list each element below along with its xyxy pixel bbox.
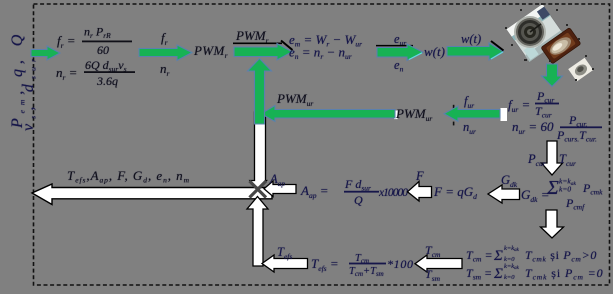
green arrow fr nr to PWMr bbox=[139, 45, 192, 61]
svg-text:*100: *100 bbox=[387, 257, 413, 271]
svg-text:k=0: k=0 bbox=[504, 256, 515, 263]
svg-text:Q: Q bbox=[354, 193, 363, 207]
photo edge speckles bbox=[505, 3, 594, 81]
svg-text:nr =: nr = bbox=[56, 65, 77, 82]
svg-text:nur = 60: nur = 60 bbox=[512, 119, 554, 136]
overline wire bbox=[233, 42, 282, 44]
formula fr = nr PrR / 60 bbox=[57, 25, 132, 58]
green arrow input bbox=[31, 46, 60, 60]
cyan tick bbox=[409, 53, 422, 60]
white arrow Gdk leftward bbox=[488, 185, 520, 203]
svg-text:Σ: Σ bbox=[546, 177, 559, 199]
svg-text:fr =: fr = bbox=[57, 33, 76, 50]
green arrow wt to photo bbox=[447, 43, 503, 60]
svg-text:60: 60 bbox=[97, 43, 109, 57]
white notch at PWMur arrow tail bbox=[394, 111, 398, 120]
white arrow Tefs into riser bbox=[262, 255, 308, 272]
junction X mixer bbox=[250, 181, 267, 198]
svg-text:k=0: k=0 bbox=[504, 274, 515, 281]
svg-text:k=0: k=0 bbox=[559, 185, 571, 194]
green arrow fur nur leftward bbox=[444, 106, 500, 122]
svg-text:F = qGd: F = qGd bbox=[433, 184, 477, 201]
rotated input label Pem q Q vs dsur bbox=[9, 30, 38, 131]
formula Tsm sum line 2 bbox=[466, 263, 604, 282]
black arrowhead diagonal bbox=[491, 41, 504, 51]
green arrow PWMr to e-block bbox=[234, 44, 292, 61]
overline wire bbox=[376, 45, 413, 47]
formula Tcm sum line 1 bbox=[466, 245, 597, 264]
formula Tefs = Tcm/(Tcm+Tsm) *100 bbox=[311, 253, 413, 278]
formula Aap = F dsur/Q x10000 bbox=[300, 177, 408, 207]
white arrow F leftward bbox=[408, 182, 432, 202]
svg-text:fur =: fur = bbox=[508, 97, 530, 114]
svg-text:x10000: x10000 bbox=[378, 187, 408, 199]
long white output arrow exiting left bbox=[32, 184, 272, 205]
long green arrow PWMur leftward bbox=[261, 106, 395, 122]
white down arrow to T formulas bbox=[541, 210, 564, 238]
black arrowhead diagonal bbox=[281, 41, 293, 51]
formula Gdk = sum Pcmk / Pcmf bbox=[521, 177, 603, 212]
svg-text:PWMr: PWMr bbox=[193, 43, 228, 60]
white down arrow Pcur Tcur bbox=[542, 141, 563, 175]
white arrow Tcm Tsm leftward bbox=[415, 255, 462, 272]
white arrow Aap into junction bbox=[264, 181, 296, 197]
svg-text:F: F bbox=[415, 169, 424, 183]
svg-text:PWMr: PWMr bbox=[235, 28, 269, 45]
svg-text:w(t): w(t) bbox=[461, 32, 481, 46]
formula fur = Pcur/Tcur bbox=[508, 89, 559, 120]
svg-text:6Q dsurvs: 6Q dsurvs bbox=[85, 58, 127, 74]
green riser arrow up bbox=[248, 59, 272, 125]
formula nur = 60 Pcur/(Pcurs Tcur) bbox=[512, 113, 602, 144]
green arrow e to wt bbox=[377, 44, 423, 61]
cyan tick bbox=[491, 52, 503, 59]
svg-text:Σ: Σ bbox=[493, 266, 503, 282]
svg-text:3.6q: 3.6q bbox=[96, 74, 118, 88]
tick marks at fur arrow head base bbox=[453, 105, 455, 109]
green arrow photo down bbox=[542, 64, 563, 87]
photo of flowmeter device bbox=[507, 4, 594, 81]
white feedback stub down to junction bbox=[250, 112, 267, 190]
formula nr = 6Q dsur vs / 3.6q bbox=[56, 58, 135, 88]
svg-text:w(t): w(t) bbox=[424, 44, 445, 59]
white up arrow from below into junction bbox=[247, 197, 268, 267]
white notch at fur arrow tail bbox=[501, 108, 508, 121]
svg-text:Σ: Σ bbox=[493, 248, 503, 264]
svg-text:Tefs,Aap, F, Gd, en, nm: Tefs,Aap, F, Gd, en, nm bbox=[67, 168, 190, 185]
